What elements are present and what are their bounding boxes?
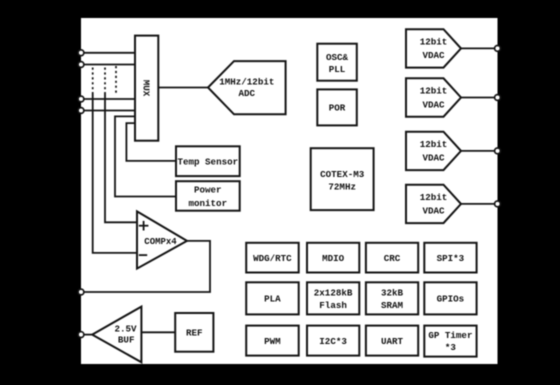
white diagram sheet bbox=[81, 18, 498, 364]
svg-text:OSC&: OSC& bbox=[326, 52, 349, 63]
I2C block bbox=[307, 326, 359, 356]
SPI block bbox=[424, 243, 476, 273]
UART block bbox=[366, 326, 418, 356]
GPIOs block bbox=[424, 282, 476, 314]
comparator COMPx4 bbox=[137, 211, 187, 268]
MDIO block bbox=[307, 243, 359, 273]
MUX block bbox=[135, 36, 158, 141]
svg-text:GPIOs: GPIOs bbox=[437, 294, 465, 305]
GP Timer block bbox=[424, 326, 476, 357]
VDAC3 block bbox=[406, 132, 461, 170]
wire to COMP plus vertical bbox=[105, 93, 137, 222]
svg-text:PLL: PLL bbox=[329, 64, 346, 75]
REF block bbox=[175, 313, 213, 352]
svg-text:1MHz/12bit: 1MHz/12bit bbox=[219, 77, 274, 88]
wire MUX to Power monitor bbox=[115, 116, 176, 196]
svg-text:2.5V: 2.5V bbox=[114, 324, 137, 335]
VDAC4 block bbox=[406, 185, 461, 223]
Temp Sensor block bbox=[176, 146, 240, 176]
svg-text:VDAC: VDAC bbox=[422, 153, 445, 164]
svg-text:PWM: PWM bbox=[264, 336, 281, 347]
svg-text:Flash: Flash bbox=[319, 300, 347, 311]
svg-text:I2C*3: I2C*3 bbox=[319, 336, 347, 347]
svg-text:72MHz: 72MHz bbox=[328, 181, 356, 192]
wire VDAC3 to right pin bbox=[461, 150, 498, 152]
dashed channel line 1 bbox=[92, 68, 94, 94]
svg-text:VDAC: VDAC bbox=[422, 50, 445, 61]
wire MUX to ADC bbox=[158, 87, 208, 89]
wire MUX to Temp Sensor bbox=[126, 123, 176, 161]
VDAC2 block bbox=[406, 78, 461, 116]
wire input2 to MUX bbox=[81, 64, 135, 66]
plus symbol of COMPx4 bbox=[139, 221, 149, 231]
svg-text:VDAC: VDAC bbox=[422, 99, 445, 110]
Flash block bbox=[307, 282, 359, 314]
svg-text:12bit: 12bit bbox=[420, 86, 448, 97]
CRC block bbox=[366, 243, 418, 273]
svg-text:12bit: 12bit bbox=[420, 139, 448, 150]
svg-text:COMPx4: COMPx4 bbox=[144, 237, 177, 247]
svg-text:MDIO: MDIO bbox=[322, 253, 345, 264]
PLA block bbox=[246, 282, 299, 314]
minus symbol of COMPx4 bbox=[139, 254, 147, 256]
buffer 2.5V BUF bbox=[92, 307, 141, 363]
svg-text:Temp Sensor: Temp Sensor bbox=[177, 157, 238, 168]
svg-text:POR: POR bbox=[329, 103, 346, 114]
svg-text:*3: *3 bbox=[445, 342, 457, 353]
svg-text:SPI*3: SPI*3 bbox=[437, 253, 465, 264]
wire VDAC2 to right pin bbox=[461, 97, 498, 99]
wire to COMP minus vertical bbox=[93, 93, 137, 253]
Power monitor block bbox=[176, 181, 240, 211]
wire left pin to BUF bbox=[81, 334, 92, 336]
POR block bbox=[317, 89, 357, 125]
svg-text:32kB: 32kB bbox=[381, 287, 404, 298]
WDG/RTC block bbox=[246, 243, 299, 273]
wire COMP output to left pin bbox=[81, 241, 210, 292]
svg-text:UART: UART bbox=[381, 336, 404, 347]
svg-text:CRC: CRC bbox=[384, 253, 401, 264]
dashed channel line 3 bbox=[115, 66, 117, 94]
svg-text:VDAC: VDAC bbox=[422, 206, 445, 217]
PWM block bbox=[246, 326, 299, 356]
pin dot BUF input bbox=[78, 332, 84, 338]
dashed channel line 2 bbox=[104, 68, 106, 94]
wire VDAC4 to right pin bbox=[461, 203, 498, 205]
pin dot VDAC1 bbox=[495, 46, 501, 52]
wire BUF to REF bbox=[141, 331, 175, 333]
svg-text:COTEX-M3: COTEX-M3 bbox=[320, 169, 365, 180]
svg-text:MUX: MUX bbox=[141, 80, 152, 97]
pin dot left 1 bbox=[78, 50, 84, 56]
pin dot left 2 bbox=[78, 62, 84, 68]
svg-text:PLA: PLA bbox=[264, 294, 281, 305]
ADC block bbox=[208, 61, 286, 114]
pin dot left 4 bbox=[78, 108, 84, 114]
svg-text:WDG/RTC: WDG/RTC bbox=[253, 253, 292, 264]
pin dot VDAC4 bbox=[495, 201, 501, 207]
svg-text:BUF: BUF bbox=[118, 335, 135, 346]
svg-text:Power: Power bbox=[194, 185, 222, 196]
wire VDAC1 to right pin bbox=[461, 47, 498, 49]
wire input3 to MUX bbox=[81, 98, 135, 100]
wire input4 to MUX bbox=[81, 110, 135, 112]
svg-text:12bit: 12bit bbox=[420, 192, 448, 203]
COTEX-M3 core block bbox=[311, 148, 374, 210]
svg-text:GP Timer: GP Timer bbox=[428, 330, 472, 341]
pin dot COMP output bbox=[78, 289, 84, 295]
pin dot left 3 bbox=[78, 96, 84, 102]
SRAM block bbox=[366, 282, 418, 314]
wire input1 to MUX bbox=[81, 52, 135, 54]
svg-text:2x128kB: 2x128kB bbox=[314, 287, 353, 298]
svg-text:SRAM: SRAM bbox=[381, 300, 404, 311]
VDAC1 block bbox=[406, 29, 461, 67]
svg-text:REF: REF bbox=[186, 328, 203, 339]
svg-text:ADC: ADC bbox=[239, 88, 256, 99]
svg-text:monitor: monitor bbox=[188, 198, 227, 209]
pin dot VDAC3 bbox=[495, 148, 501, 154]
OSC and PLL block bbox=[317, 44, 357, 81]
pin dot VDAC2 bbox=[495, 95, 501, 101]
svg-text:12bit: 12bit bbox=[420, 37, 448, 48]
